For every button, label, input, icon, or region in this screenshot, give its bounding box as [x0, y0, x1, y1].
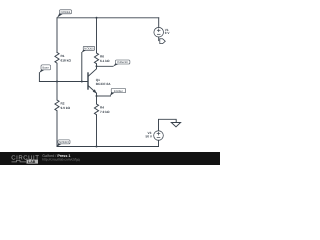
net flag down (V3 plus): [171, 123, 180, 127]
junction base wire / NODE5 stub: [81, 81, 83, 83]
wire R2 to bottom rail: [56, 111, 58, 146]
transistor Q1: [88, 66, 97, 96]
component value texts: [61, 28, 171, 139]
node flag Emitter: [110, 88, 126, 96]
wire V1 to flag: [158, 37, 160, 41]
wire base node to R2: [56, 81, 58, 100]
svg-text:NODE4: NODE4: [61, 10, 71, 14]
wire left branch upper: [56, 18, 58, 53]
voltage source V3: [154, 131, 164, 141]
wire R1 to base node: [56, 64, 58, 81]
wire node5 stub: [81, 53, 83, 82]
junction top rail / R6 branch: [96, 17, 98, 19]
wire R4 to bottom rail: [96, 115, 98, 146]
logo squiggle: [12, 160, 27, 162]
node flag Collector: [113, 60, 130, 67]
resistor R2: [55, 100, 59, 111]
voltage source V1: [154, 27, 164, 37]
wire top rail: [57, 17, 159, 19]
svg-text:R6: R6: [100, 55, 104, 59]
junction bottom rail / emitter branch: [96, 146, 98, 148]
junction collector node: [96, 65, 98, 67]
node flag NODE5: [82, 46, 95, 53]
wire bottom rail: [57, 146, 159, 148]
wire V1 drop: [158, 18, 160, 28]
node flag NODE3: [57, 140, 70, 147]
resistor R4: [94, 104, 98, 115]
svg-text:Collector: Collector: [117, 60, 128, 64]
footer bar: [0, 152, 220, 165]
svg-text:Base: Base: [43, 66, 50, 70]
svg-text:R1: R1: [61, 54, 65, 58]
svg-text:NODE5: NODE5: [84, 47, 94, 51]
logo LAB box: [27, 160, 39, 164]
node flag NODE4: [57, 10, 72, 18]
svg-text:6.1 kΩ: 6.1 kΩ: [100, 59, 110, 63]
wire V3 bottom: [158, 140, 160, 146]
svg-text:R2: R2: [61, 102, 65, 106]
wire R6 to collector node: [96, 64, 98, 66]
svg-text:http://circuitlab.com/c5fgq: http://circuitlab.com/c5fgq: [42, 158, 80, 162]
svg-text:50 V: 50 V: [146, 135, 153, 139]
svg-text:LAB: LAB: [28, 160, 36, 164]
svg-text:BC337-0A: BC337-0A: [96, 82, 112, 86]
resistor R1: [55, 52, 59, 63]
node flags: [39, 10, 130, 147]
wire emitter to R4: [96, 96, 98, 104]
wire base horizontal: [39, 73, 88, 82]
resistor R6: [94, 53, 98, 64]
wire V3 plus to flag: [159, 119, 177, 130]
svg-text:R4: R4: [100, 106, 104, 110]
svg-text:7.9 kΩ: 7.9 kΩ: [100, 110, 110, 114]
wire collector output: [97, 65, 114, 67]
node flag Base: [39, 65, 50, 73]
svg-text:9.9 kΩ: 9.9 kΩ: [61, 106, 71, 110]
wire emitter output: [97, 95, 111, 97]
svg-text:618 kΩ: 618 kΩ: [61, 58, 72, 62]
net flag right (V1 minus): [160, 39, 166, 44]
svg-text:Emitter: Emitter: [114, 89, 123, 93]
junction base wire / divider: [56, 81, 58, 83]
wire R6 branch top: [96, 18, 98, 53]
svg-text:NODE3: NODE3: [59, 140, 69, 144]
junction emitter node: [96, 95, 98, 97]
